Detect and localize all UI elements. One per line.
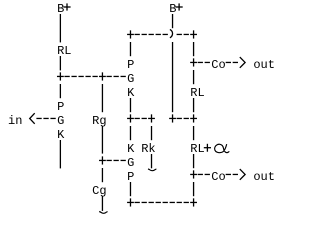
junction B+ right to RL (169, 114, 176, 122)
svg-text:out: out (253, 58, 275, 72)
wire grid node down to Cg (102, 168, 103, 182)
wire RL right down to B+ junction (193, 98, 194, 112)
junction V2 cathode node (127, 114, 134, 122)
wire node to V1 plate P (60, 84, 61, 98)
svg-text:Co: Co (211, 58, 225, 72)
wire plate node down to Rg (102, 84, 103, 112)
ground under Cg (99, 212, 107, 214)
svg-text:RL: RL (190, 142, 204, 156)
output arrow head lower (240, 169, 245, 180)
svg-text:G: G (57, 114, 64, 128)
plus sign of RL+a (204, 144, 211, 152)
svg-text:Rg: Rg (92, 114, 106, 128)
wire bottom rail (135, 202, 189, 203)
wire B+ left down to RL (60, 14, 61, 42)
wire V2 plate line (left of crossover) (135, 34, 168, 35)
wire Rg top to V2 grid G (107, 76, 126, 77)
wire crossover hop (170, 29, 173, 37)
wire junction down to RL+a (193, 126, 194, 140)
wire grid node to V3 grid G (107, 160, 126, 161)
wire B+ to RL bottom (177, 118, 189, 119)
svg-text:Co: Co (211, 170, 225, 184)
svg-text:B: B (57, 2, 64, 16)
svg-text:G: G (127, 156, 134, 170)
wire top line down to V2 plate (130, 42, 131, 56)
output arrow head upper (240, 57, 245, 68)
junction RL bottom to B+ (190, 114, 197, 122)
wire plate line down to Co tap (193, 42, 194, 56)
wire Co to output arrow lower (226, 174, 238, 175)
svg-text:P: P (127, 170, 134, 184)
svg-text:RL: RL (190, 86, 204, 100)
svg-text:in: in (8, 114, 22, 128)
wire Cg down to ground (102, 196, 103, 211)
wire B+ right down to RL junction (172, 42, 173, 112)
wire V3 plate down to bottom rail (130, 182, 131, 196)
junction Rk top (148, 114, 155, 122)
junction V1 plate node (57, 72, 64, 80)
wire to capacitor Co lower (198, 174, 210, 175)
wire Co tap down to RL right (193, 70, 194, 84)
junction V3 grid node (99, 156, 106, 164)
junction output tap upper (190, 58, 197, 66)
wire V1 cathode K down (60, 140, 61, 168)
wire input arrow to V1 grid (36, 118, 55, 119)
svg-text:Cg: Cg (92, 184, 106, 198)
junction V2 plate line start (127, 30, 134, 38)
wire Co tap down to bottom rail (193, 182, 194, 196)
svg-text:Rk: Rk (141, 142, 155, 156)
wire junction down to Rk (151, 126, 152, 140)
greek alpha of RL+a (215, 144, 230, 153)
svg-text:G: G (127, 72, 134, 86)
junction V3 plate to bottom rail (127, 198, 134, 206)
wire V2 plate line (right of crossover) (177, 34, 189, 35)
wire Rk down to ground (151, 154, 152, 168)
svg-text:P: P (127, 58, 134, 72)
svg-text:K: K (127, 142, 135, 156)
wire RL+a down to Co tap (193, 154, 194, 168)
svg-text:out: out (253, 170, 275, 184)
junction plate line to right column (190, 30, 197, 38)
wire B+ right down to crossover (172, 14, 173, 28)
junction output tap lower (190, 170, 197, 178)
wire V1 plate node to Rg top (64, 76, 97, 77)
svg-text:P: P (57, 100, 64, 114)
wire Co to output arrow upper (226, 62, 238, 63)
svg-text:K: K (127, 86, 135, 100)
wire to capacitor Co upper (198, 62, 210, 63)
junction bottom rail right end (190, 198, 197, 206)
wire Rg down to grid node (102, 126, 103, 154)
svg-text:B: B (169, 2, 176, 16)
wire V2 cathode down to junction (130, 98, 131, 112)
input arrow head (30, 113, 35, 124)
wire RL to plate node (60, 56, 61, 70)
junction Rg top (99, 72, 106, 80)
ground under Rk (148, 169, 156, 171)
wire V2 cathode to Rk (135, 118, 147, 119)
svg-text:K: K (57, 128, 65, 142)
svg-text:RL: RL (57, 44, 71, 58)
wire junction down to V3 cathode (130, 126, 131, 140)
